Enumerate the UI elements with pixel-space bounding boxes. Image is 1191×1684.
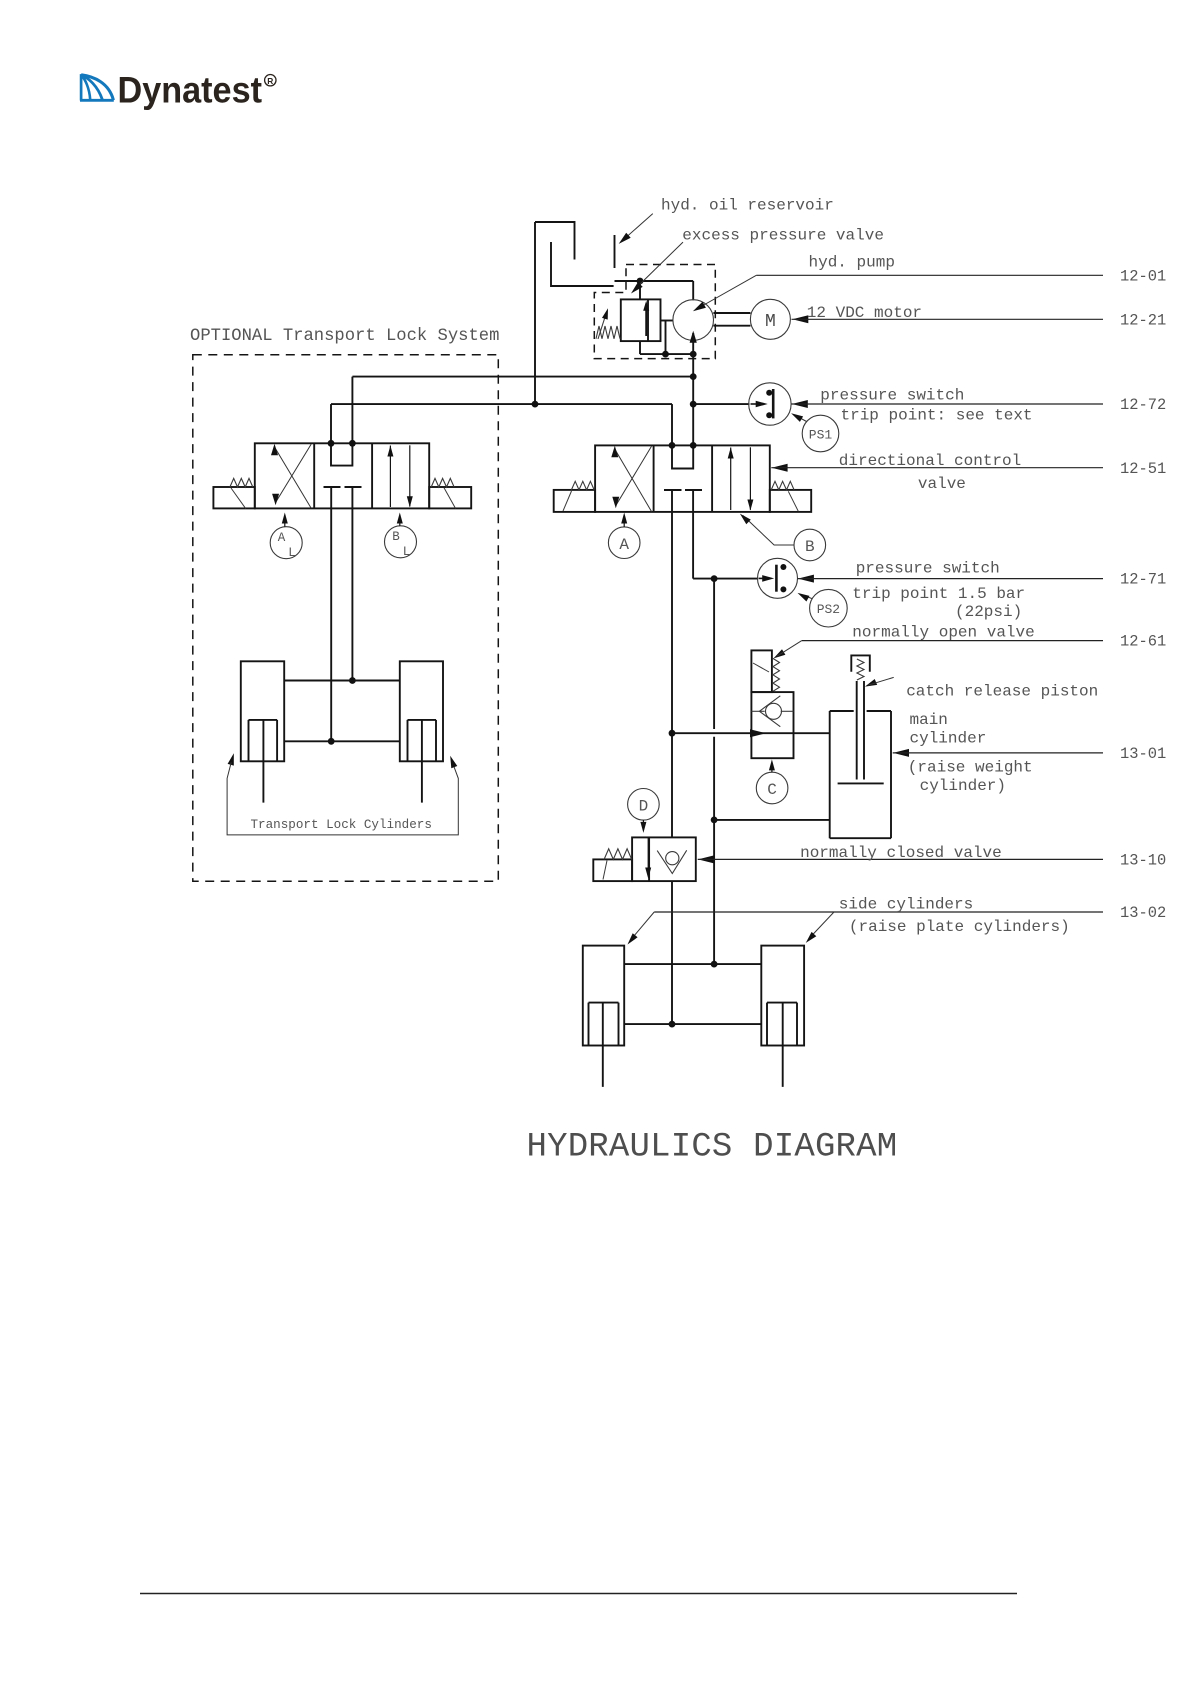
svg-text:12-51: 12-51 <box>1120 460 1166 478</box>
svg-text:pressure switch: pressure switch <box>820 387 964 405</box>
lock valve blocked center port (staple) <box>331 443 352 465</box>
label 12-51 <box>1120 460 1166 478</box>
catch release piston <box>851 655 870 690</box>
transport lock valve body <box>255 443 429 508</box>
svg-text:PS2: PS2 <box>817 602 840 617</box>
port label circle D <box>628 789 660 833</box>
relief valve adjust arrow <box>598 308 608 339</box>
svg-text:trip point: see text: trip point: see text <box>841 407 1033 425</box>
wire relief drain <box>640 341 693 354</box>
svg-text:12-71: 12-71 <box>1120 571 1166 589</box>
label 12-21 <box>1120 312 1166 330</box>
svg-text:catch release piston: catch release piston <box>906 683 1098 701</box>
leader directional control valve <box>772 464 788 472</box>
label trip point see text <box>841 407 1033 425</box>
label normally closed valve <box>800 844 1002 862</box>
main cylinder piston and rod <box>838 690 884 783</box>
reference line 12-01 <box>756 274 1103 276</box>
relief valve spring <box>596 326 620 339</box>
label Transport Lock Cylinders <box>251 818 432 832</box>
node valve 12-51 port P left <box>669 442 676 449</box>
wire relief pilot stub <box>661 321 674 355</box>
wire H2 (to directional valves) <box>331 404 672 445</box>
reference line 12-51 <box>771 467 1103 469</box>
label 13-01 <box>1120 745 1166 763</box>
svg-text:Transport Lock Cylinders: Transport Lock Cylinders <box>251 818 432 832</box>
svg-text:B: B <box>392 530 400 544</box>
node PS1 branch junction <box>690 401 697 408</box>
label trip point 1.5 bar <box>852 585 1025 603</box>
reference line 12-72 <box>792 403 1104 405</box>
transport lock cylinders label bracket <box>227 753 458 835</box>
wire PS1 branch <box>693 403 749 405</box>
reference line 13-01 <box>893 752 1103 754</box>
pressure switch PS2 symbol <box>758 558 798 598</box>
node PS2 branch <box>711 575 718 582</box>
label cylinder <box>910 730 987 748</box>
node H1-pump junction <box>690 373 697 380</box>
wire lock port B down <box>351 508 353 680</box>
port label circle C <box>756 759 788 803</box>
svg-text:cylinder): cylinder) <box>920 777 1006 795</box>
Dynatest logo mark <box>80 74 114 100</box>
valve 12-51 right spring <box>771 481 798 511</box>
label 12 VDC motor <box>807 304 922 322</box>
svg-text:L: L <box>288 546 296 560</box>
label valve <box>918 475 966 493</box>
motor shaft coupling <box>713 313 750 326</box>
port label circle A <box>608 513 640 559</box>
12 VDC motor M1 <box>750 299 790 339</box>
label cylinder) <box>920 777 1006 795</box>
node main cylinder branch <box>711 817 718 824</box>
label 12-01 <box>1120 268 1166 286</box>
svg-text:trip point 1.5 bar: trip point 1.5 bar <box>852 585 1025 603</box>
reference line 13-10 <box>698 858 1103 860</box>
svg-text:B: B <box>805 538 815 556</box>
svg-text:normally open valve: normally open valve <box>852 624 1034 642</box>
lock valve right end cap <box>429 487 471 508</box>
wire lock cylinders upper line <box>284 680 400 682</box>
wire through NO valve to main cylinder <box>672 729 830 737</box>
reference line 12-71 <box>798 578 1103 580</box>
label 12-71 <box>1120 571 1166 589</box>
wire pump suction line <box>615 281 694 300</box>
valve 12-51 left spring <box>563 481 594 511</box>
wire reservoir drop to H2 <box>534 222 536 404</box>
label hyd. oil reservoir <box>661 197 834 215</box>
svg-text:R: R <box>267 76 273 86</box>
leader normally closed valve <box>698 855 714 863</box>
lock valve crossed-flow section <box>271 444 311 508</box>
svg-text:12-21: 12-21 <box>1120 312 1166 330</box>
svg-text:OPTIONAL Transport Lock System: OPTIONAL Transport Lock System <box>190 327 499 346</box>
leader hyd. pump <box>693 275 756 311</box>
svg-text:side cylinders: side cylinders <box>839 896 973 914</box>
svg-text:13-01: 13-01 <box>1120 745 1166 763</box>
svg-text:M: M <box>765 312 776 332</box>
leader 12 VDC motor <box>792 315 808 323</box>
Dynatest logo text <box>118 68 263 110</box>
svg-text:valve: valve <box>918 475 966 493</box>
valve 12-51 blocked center port (staple) <box>672 445 693 468</box>
wire side cylinders upper line <box>624 963 761 965</box>
node side cylinder lower junction <box>669 1021 676 1028</box>
svg-text:hyd. oil reservoir: hyd. oil reservoir <box>661 197 834 215</box>
wire center branch down <box>713 579 715 965</box>
pump unit enclosure (dashed) <box>594 265 715 359</box>
normally open valve check symbol <box>751 696 793 727</box>
node drain junction B <box>690 351 697 358</box>
label (raise weight <box>908 758 1033 776</box>
svg-text:C: C <box>767 781 777 799</box>
label side cylinders <box>839 896 973 914</box>
hyd. oil reservoir symbol <box>535 222 615 286</box>
svg-text:13-02: 13-02 <box>1120 904 1166 922</box>
node H2-reservoir junction <box>532 401 539 408</box>
label 12-61 <box>1120 633 1166 651</box>
leader excess pressure valve <box>631 242 683 293</box>
label normally open valve <box>852 624 1034 642</box>
svg-text:(raise weight: (raise weight <box>908 758 1033 776</box>
title HYDRAULICS DIAGRAM <box>527 1129 898 1167</box>
lock valve left spring <box>230 478 253 508</box>
svg-text:hyd. pump: hyd. pump <box>809 254 895 272</box>
label OPTIONAL Transport Lock System <box>190 327 499 346</box>
node pump-drain <box>0 0 1 1</box>
label (raise plate cylinders) <box>849 918 1070 936</box>
node port A - NO valve branch <box>669 730 676 737</box>
label pressure switch (PS2) <box>856 560 1000 578</box>
pressure switch PS1 symbol <box>749 383 791 425</box>
node suction-relief junction <box>637 278 644 285</box>
label 13-10 <box>1120 852 1166 870</box>
port label circle B L <box>385 513 417 560</box>
reference line 12-21 <box>792 318 1104 320</box>
leader side cylinders <box>628 912 1104 945</box>
label main <box>910 711 948 729</box>
svg-text:(22psi): (22psi) <box>955 603 1022 621</box>
leader pressure switch PS2 <box>798 575 814 583</box>
svg-text:cylinder: cylinder <box>910 730 987 748</box>
node lock valve port left <box>328 440 335 447</box>
NC valve end cap and spring <box>593 849 632 881</box>
svg-text:D: D <box>639 797 649 815</box>
wire side cylinders lower line <box>624 1023 761 1025</box>
label hyd. pump <box>809 254 895 272</box>
svg-text:13-10: 13-10 <box>1120 852 1166 870</box>
svg-text:12-72: 12-72 <box>1120 396 1166 414</box>
node valve 12-51 port P right <box>690 442 697 449</box>
transport lock cylinder right <box>400 661 443 802</box>
wire port A down (to NC valve) <box>671 512 673 838</box>
svg-text:PS1: PS1 <box>809 428 833 443</box>
leader main cylinder <box>893 749 909 757</box>
label 13-02 <box>1120 904 1166 922</box>
valve 12-51 left end cap <box>554 490 595 512</box>
svg-text:excess pressure valve: excess pressure valve <box>682 227 884 245</box>
lock valve right spring <box>431 478 455 508</box>
wire lock cylinders lower line <box>284 740 400 742</box>
lock valve blocked T ports <box>324 487 362 508</box>
node lock wire upper junction <box>349 677 356 684</box>
port label circle B <box>740 514 826 561</box>
label (22psi) <box>955 603 1022 621</box>
PS2 tag circle <box>798 589 848 627</box>
leader normally open valve <box>774 641 802 659</box>
svg-text:L: L <box>403 545 411 559</box>
wire NC valve down <box>671 881 673 1024</box>
side cylinder left <box>583 946 624 1087</box>
svg-text:normally closed valve: normally closed valve <box>800 844 1002 862</box>
svg-text:A: A <box>278 531 286 545</box>
directional control valve 12-51 body <box>595 445 770 512</box>
port label circle A L <box>270 513 302 561</box>
node lock valve port right <box>349 440 356 447</box>
label 12-72 <box>1120 396 1166 414</box>
side cylinder right <box>761 946 804 1087</box>
normally open valve 12-61 pilot section <box>751 650 772 692</box>
label directional control <box>839 452 1021 470</box>
NC valve check symbol <box>657 850 687 873</box>
label excess pressure valve <box>682 227 884 245</box>
label pressure switch (PS1) <box>820 387 964 405</box>
wire port B down to PS2 <box>693 512 758 579</box>
svg-text:main: main <box>910 711 948 729</box>
reference line 12-61 <box>802 640 1103 642</box>
leader hyd. oil reservoir <box>619 214 653 244</box>
wire relief valve top <box>639 281 641 299</box>
main cylinder 13-01 shell <box>830 711 891 838</box>
Dynatest registered mark <box>265 75 276 87</box>
wire pump outlet vertical <box>692 333 694 445</box>
leader pressure switch PS1 <box>792 400 808 408</box>
normally open valve 12-61 body <box>751 692 793 758</box>
label catch release piston <box>906 683 1098 701</box>
excess pressure valve V1 <box>621 299 661 341</box>
node lock wire lower junction <box>328 738 335 745</box>
normally open valve spring <box>773 658 780 691</box>
wire lower feed to main cylinder <box>714 819 830 821</box>
svg-text:12-01: 12-01 <box>1120 268 1166 286</box>
valve 12-51 crossed-flow section <box>611 446 651 512</box>
NC valve internal arrow <box>645 838 651 879</box>
transport lock cylinder left <box>241 661 284 802</box>
hyd. pump P1 <box>673 300 714 343</box>
normally closed valve 13-10 body <box>632 837 696 881</box>
svg-text:directional control: directional control <box>839 452 1021 470</box>
bottom rule <box>140 1593 1017 1595</box>
valve 12-51 straight-flow arrows <box>728 447 754 510</box>
svg-text:Dynatest: Dynatest <box>118 68 263 110</box>
svg-text:(raise plate cylinders): (raise plate cylinders) <box>849 918 1070 936</box>
PS1 tag circle <box>791 413 839 452</box>
svg-text:12-61: 12-61 <box>1120 633 1166 651</box>
valve 12-51 right end cap <box>770 490 811 512</box>
lock valve straight-flow arrows <box>387 445 412 507</box>
lock valve left end cap <box>213 487 254 508</box>
svg-text:pressure switch: pressure switch <box>856 560 1000 578</box>
svg-text:HYDRAULICS DIAGRAM: HYDRAULICS DIAGRAM <box>527 1129 898 1167</box>
svg-text:A: A <box>619 536 629 554</box>
wire H1 (pump to lock valve) <box>352 377 693 444</box>
valve 12-51 blocked T ports <box>664 490 702 512</box>
transport lock system enclosure (dashed) <box>193 355 499 881</box>
node drain junction A <box>662 351 669 358</box>
node side cylinder upper junction <box>711 961 718 968</box>
wire lock port A down <box>330 508 332 741</box>
leader catch release piston <box>865 677 894 686</box>
svg-text:12 VDC motor: 12 VDC motor <box>807 304 922 322</box>
